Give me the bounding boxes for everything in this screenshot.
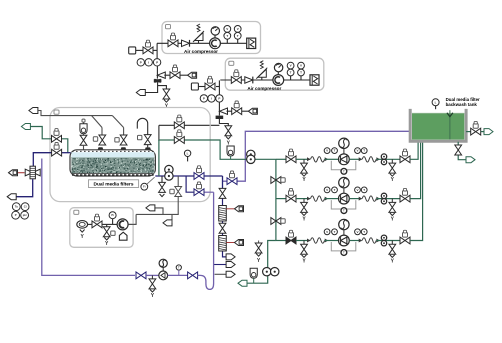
drain flag green [238, 280, 247, 286]
duplex sensor pair on main [165, 165, 173, 180]
chemical pump skid box [70, 208, 133, 248]
backwash inlet navy piping [33, 153, 70, 167]
recirc valve with actuator [194, 182, 204, 196]
svg-text:P: P [140, 60, 142, 64]
inlet valve A with side square [93, 135, 105, 145]
strainer 2 red tap [226, 240, 243, 246]
tank level instrument [432, 99, 439, 109]
filter inlet header piping [38, 111, 113, 136]
dosing valve 2 [188, 272, 198, 279]
skid outlet piping [128, 223, 136, 225]
pipe to valve [168, 274, 188, 276]
drain sensor pair [263, 268, 279, 276]
label instrument bubble with leader [141, 177, 155, 190]
transfer pump with motor [159, 259, 168, 280]
air riser at filter vessel [158, 125, 160, 141]
svg-text:Air compressor: Air compressor [184, 49, 218, 54]
filters label box [89, 180, 139, 188]
dual media filter vessel [70, 150, 155, 176]
svg-text:T: T [237, 34, 239, 38]
main drain drop with vee [159, 176, 166, 197]
green riser to vessel [158, 140, 160, 176]
svg-text:T: T [334, 230, 336, 234]
drain rotameter [250, 268, 257, 283]
svg-text:V: V [356, 188, 358, 192]
filtered water main navy [155, 175, 222, 177]
drain jog piping [158, 86, 167, 90]
svg-text:L: L [435, 100, 437, 104]
backwash supply purple from tank [223, 131, 411, 181]
svg-text:V: V [326, 149, 328, 153]
svg-text:T: T [363, 230, 365, 234]
tank label [446, 97, 480, 107]
utility square flag [129, 47, 136, 54]
green line valve with actuator [174, 130, 184, 144]
air line jog to drain [219, 119, 228, 126]
svg-text:T: T [290, 71, 292, 75]
svg-text:T: T [226, 34, 228, 38]
svg-text:P: P [203, 96, 205, 100]
air compressor package 1 (box, inlet valve, check valve, relief valve, gauge, compressor, silencer) [157, 22, 261, 55]
dosing line purple vertical [42, 159, 135, 276]
level instrument on vessel [184, 150, 190, 161]
svg-text:V: V [356, 230, 358, 234]
atmos flag [136, 90, 145, 96]
dosing line valve [136, 272, 159, 279]
recirc flag right [214, 262, 236, 268]
pump suction manifold [275, 159, 277, 240]
atmos branch piping [145, 82, 157, 92]
backwash inlet valve with actuator [52, 143, 62, 157]
sample red line and flag [9, 170, 25, 176]
collection flag 2 [163, 214, 172, 226]
check valve to vent line [157, 72, 170, 78]
collection flag 1 [146, 205, 155, 211]
waste column navy [223, 176, 227, 257]
branch to recirc [186, 176, 214, 192]
filtered water green line [159, 140, 276, 159]
svg-text:T: T [334, 188, 336, 192]
skid pressure instrument [109, 212, 116, 225]
valve with actuator compressor 2 bypass [198, 76, 215, 90]
svg-text:Air compressor: Air compressor [247, 86, 281, 91]
air supply line to filters [159, 124, 220, 126]
vent nozzle [145, 145, 151, 151]
compressor 1 discharge header [153, 43, 157, 58]
inlet nozzle B [120, 147, 126, 150]
air compressor package 2 (box, inlet valve, check valve, relief valve, gauge, compressor, silencer) [220, 58, 323, 91]
drain flag right [215, 271, 236, 277]
dosing drop valve with Y [149, 275, 156, 299]
strainer 1 red tap [226, 206, 243, 212]
drain to outfall navy [16, 179, 33, 197]
header 2 down leg [218, 102, 220, 115]
row 3 drain drop valve [255, 241, 262, 264]
backwash pump row 3 [276, 142, 423, 265]
waste flag right [226, 254, 235, 260]
valve with actuator on compressor 1 bypass [136, 40, 154, 54]
tank drain piping [455, 142, 475, 163]
skid dosing ellipse [77, 221, 88, 240]
row 3 drain piping [247, 241, 276, 284]
temp instrument [176, 265, 181, 276]
dual media filters group box [50, 108, 210, 202]
manifold valve 1 with side square [271, 177, 285, 184]
svg-text:T: T [363, 188, 365, 192]
analyser circles Tu Cl P pH [12, 203, 29, 219]
tank inlet dip pipe [447, 110, 453, 139]
skid pump [117, 219, 128, 240]
air rotameter column on vessel [80, 119, 87, 150]
sample 3-way valve [25, 166, 40, 179]
compressor 2 discharge header [216, 80, 219, 94]
svg-text:Tu: Tu [15, 205, 18, 209]
backwash pump row 1 [276, 138, 418, 183]
vent valve with actuator [170, 65, 188, 79]
branch end flag [248, 108, 257, 114]
inline reducer 2 [216, 116, 224, 119]
svg-text:L: L [187, 151, 189, 155]
svg-text:Cl: Cl [24, 205, 27, 209]
manifold valve 2 with side square [271, 218, 285, 225]
inlet nozzle A [98, 147, 104, 150]
svg-text:V: V [300, 64, 302, 68]
gravity drain leg gray [170, 176, 182, 214]
air supply valve with actuator [174, 115, 184, 129]
raw water piping green [30, 127, 67, 153]
svg-text:V: V [290, 64, 292, 68]
svg-text:V: V [356, 149, 358, 153]
svg-text:backwash tank: backwash tank [446, 102, 478, 107]
vent valve with side square [138, 135, 152, 145]
header down leg [156, 66, 158, 79]
svg-text:T: T [363, 149, 365, 153]
pressure gauges trio compressor 2 [200, 95, 223, 102]
air drain valve with Y [225, 126, 232, 147]
svg-text:T: T [300, 71, 302, 75]
branch valve with actuator [232, 101, 249, 115]
waste strainer 1 [219, 206, 227, 222]
check valve to flag branch [220, 108, 232, 114]
drain collection header [128, 214, 178, 224]
waste valve 1 [219, 188, 226, 198]
filter inlet flag (top left) [29, 108, 38, 114]
svg-text:V: V [326, 230, 328, 234]
waste valve 2 [219, 223, 226, 233]
svg-text:P: P [218, 96, 220, 100]
filter inlet branch 2 piping [112, 116, 123, 136]
svg-text:P: P [156, 60, 158, 64]
inline reducer [154, 79, 162, 83]
svg-text:Fi: Fi [143, 186, 146, 189]
skid valve with actuator [92, 214, 102, 228]
utility square flag 2 [191, 83, 198, 90]
backwash pump row 2 [276, 142, 421, 223]
skid pipe [88, 223, 117, 225]
blowdown vent chevron and Y [164, 100, 169, 110]
tank outlet to treatment [466, 121, 493, 135]
main valve with actuator [194, 166, 204, 180]
svg-text:T: T [334, 149, 336, 153]
blowdown valve [163, 89, 170, 99]
inlet valve B with side square [115, 135, 127, 145]
svg-text:P: P [15, 213, 17, 217]
svg-text:Dual media filters: Dual media filters [94, 181, 134, 187]
svg-text:Pi: Pi [111, 213, 114, 217]
raw water valve with actuator [52, 129, 62, 143]
svg-text:V: V [226, 27, 228, 31]
flow rotameter on row 1 [227, 146, 234, 159]
waste strainer 2 [219, 236, 227, 252]
u-seal to waste column [198, 192, 214, 289]
svg-text:V: V [237, 27, 239, 31]
vent gooseneck [137, 118, 147, 134]
backwash tank [410, 109, 466, 141]
vent flag [188, 72, 197, 78]
backwash supply valve with actuator [227, 171, 237, 185]
duplex sensor pair row 1 [247, 150, 255, 163]
raw water flag (green) [21, 124, 30, 130]
skid drain branch [103, 224, 115, 247]
outfall flag [7, 194, 16, 200]
svg-text:pH: pH [23, 213, 27, 217]
svg-text:V: V [326, 188, 328, 192]
collection riser to flag [155, 208, 163, 215]
pressure gauges trio compressor 1 [137, 59, 161, 66]
